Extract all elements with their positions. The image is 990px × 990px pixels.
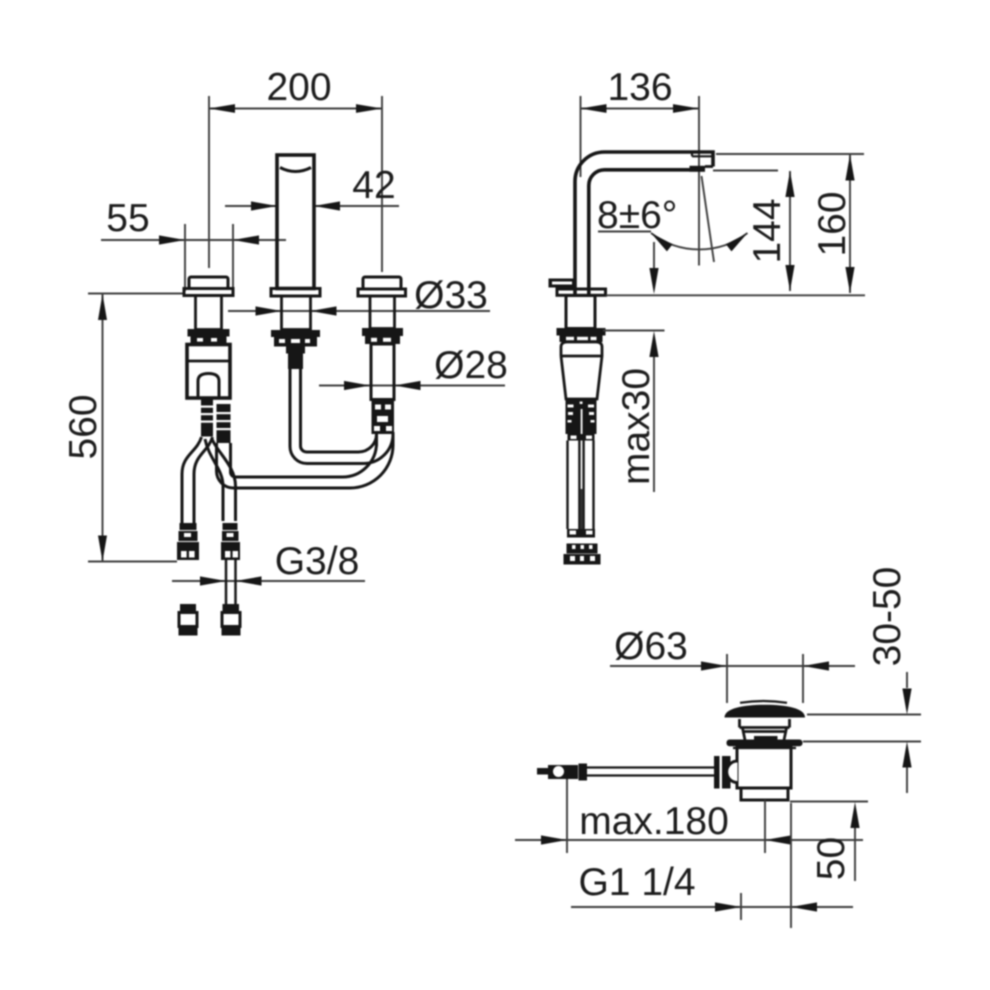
- left handle mounting nut: [188, 329, 230, 344]
- drain flange: [727, 740, 803, 747]
- dimension max30: [603, 242, 665, 492]
- spout end cap seam: [692, 153, 713, 157]
- pull rod end: [537, 768, 548, 775]
- angle leader line: [598, 231, 651, 233]
- plug cap top arc: [740, 701, 787, 703]
- side hose connectors: [564, 544, 601, 565]
- plug neck lower: [742, 728, 787, 740]
- spout side outer wall: [575, 152, 713, 295]
- supply hose left: [182, 437, 202, 523]
- spout outlet tube: [290, 369, 393, 464]
- right handle mounting nut: [362, 328, 403, 344]
- supply hose middle: [205, 439, 223, 521]
- right handle shank: [370, 296, 395, 329]
- svg-text:42: 42: [352, 164, 395, 207]
- rod clamp block: [714, 756, 731, 789]
- side hose lower crimp: [567, 529, 595, 538]
- spout column body: [277, 155, 314, 289]
- plug cap dome band: [725, 705, 806, 718]
- side threaded fitting block: [566, 400, 597, 435]
- left valve body: [187, 345, 230, 399]
- side mounting nut: [557, 328, 606, 342]
- left valve fitting stack left: [201, 399, 213, 437]
- dimension 42: [225, 164, 399, 211]
- aerator side: [690, 166, 706, 172]
- spout escutcheon: [271, 289, 320, 297]
- svg-text:30-50: 30-50: [866, 567, 909, 667]
- side hoses: [568, 441, 594, 530]
- deck reference line: [606, 294, 865, 296]
- svg-text:136: 136: [607, 66, 672, 109]
- svg-text:55: 55: [106, 197, 149, 240]
- angle arc arrowheads: [651, 233, 673, 251]
- dimension G3/8: [172, 540, 365, 586]
- right handle knob: [363, 277, 401, 289]
- right handle fitting block: [372, 400, 395, 434]
- dimension D28: [319, 344, 508, 390]
- dimension 55: [101, 197, 286, 291]
- plug neck upper: [740, 719, 790, 728]
- dimension G1 1/4: [571, 803, 853, 928]
- side valve body: [561, 342, 602, 399]
- spout end underside: [705, 165, 713, 168]
- crossover hose (U): [217, 443, 394, 488]
- aerator mark front: [280, 168, 311, 172]
- svg-text:max30: max30: [615, 368, 658, 485]
- dimension D63: [610, 625, 855, 703]
- svg-text:560: 560: [62, 394, 105, 459]
- dimension 560: [62, 294, 184, 562]
- spout lower fitting: [286, 347, 305, 370]
- svg-text:Ø63: Ø63: [614, 625, 688, 668]
- dimension 144: [713, 171, 795, 292]
- spout mounting nut: [271, 330, 320, 347]
- supply hose left connector G3/8: [177, 523, 199, 560]
- dimension max.180: [515, 779, 863, 853]
- spout side inner wall: [589, 170, 690, 295]
- dimension D33: [228, 274, 490, 317]
- loose nipple piece: [180, 604, 196, 611]
- right handle lower shank: [371, 344, 394, 400]
- dimension 160: [716, 154, 864, 293]
- svg-text:160: 160: [811, 191, 854, 256]
- ball joint: [727, 761, 738, 783]
- G3/8 threaded shank: [226, 560, 236, 604]
- spout shank: [282, 296, 311, 330]
- shank end block: [223, 604, 240, 611]
- left handle escutcheon: [184, 289, 233, 296]
- angle arc: [651, 233, 748, 249]
- dimension 200: [209, 66, 382, 272]
- svg-text:G3/8: G3/8: [275, 540, 360, 583]
- dimension 136: [581, 66, 700, 266]
- dimension 30-50: [803, 567, 921, 793]
- left valve fitting stack right: [217, 404, 231, 443]
- supply hose middle connector: [221, 523, 240, 560]
- svg-text:50: 50: [810, 837, 853, 880]
- spray direction line: [702, 176, 715, 262]
- svg-text:200: 200: [266, 66, 331, 109]
- drain body: [737, 747, 791, 789]
- side shank below deck: [566, 296, 595, 329]
- dimension 50: [790, 802, 868, 882]
- escutcheon side: [557, 289, 606, 295]
- svg-text:max.180: max.180: [579, 800, 729, 843]
- right handle escutcheon: [358, 289, 406, 296]
- left valve outlet dome: [198, 374, 219, 398]
- pull rod: [587, 768, 715, 776]
- svg-text:G1 1/4: G1 1/4: [578, 861, 695, 904]
- lever handle side: [549, 279, 576, 288]
- svg-text:Ø28: Ø28: [434, 344, 508, 387]
- svg-text:144: 144: [746, 198, 789, 263]
- hose verticals at right valve: [377, 432, 394, 446]
- left handle shank: [196, 296, 222, 330]
- side hose crimp: [568, 434, 595, 441]
- left handle knob: [189, 277, 228, 289]
